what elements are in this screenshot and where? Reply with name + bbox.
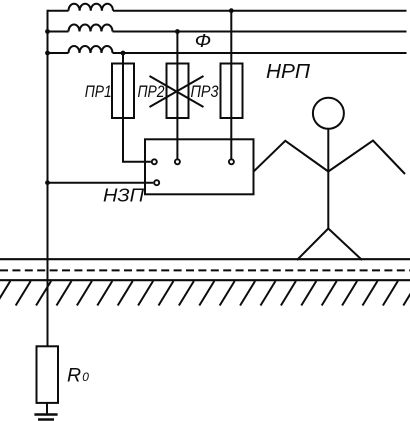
fuse PR3 bbox=[221, 64, 243, 119]
person right arm bbox=[328, 141, 405, 175]
earth electrode symbol bbox=[34, 415, 57, 420]
svg-text:ПР3: ПР3 bbox=[191, 82, 219, 101]
terminal 1 bbox=[152, 159, 157, 164]
person right leg bbox=[328, 229, 362, 261]
relay box NZP bbox=[145, 139, 254, 194]
wire phase line 1 (top) bbox=[48, 10, 407, 12]
terminal 4 bbox=[154, 180, 159, 185]
wire neutral bus vertical bbox=[47, 10, 49, 347]
wire resistor to earth bbox=[46, 403, 48, 415]
junction node PR1 tap bbox=[121, 51, 126, 56]
blown fuse X mark over PR2 bbox=[150, 76, 204, 107]
svg-text:R0: R0 bbox=[67, 365, 89, 387]
fuse PR1 bbox=[112, 64, 134, 119]
svg-text:ПР1: ПР1 bbox=[85, 82, 112, 101]
wire drop to fuse PR1 and bend to terminal 1 bbox=[123, 53, 151, 162]
junction node on bus at line 2 bbox=[45, 29, 50, 34]
resistor R0 bbox=[37, 346, 59, 403]
wire neutral branch to terminal 4 bbox=[48, 182, 154, 184]
winding L3 bbox=[69, 46, 113, 53]
wire drop to fuse PR3 bbox=[230, 11, 232, 159]
svg-text:ПР2: ПР2 bbox=[138, 82, 165, 101]
ground dashed line bbox=[0, 269, 410, 271]
person head bbox=[313, 98, 344, 129]
terminal 3 bbox=[229, 159, 234, 164]
person body bbox=[327, 129, 329, 229]
svg-text:НЗП: НЗП bbox=[103, 185, 145, 205]
fuse PR2 bbox=[167, 64, 189, 119]
wire phase line 2 (middle) bbox=[48, 31, 407, 33]
junction node on bus at line 3 bbox=[45, 51, 50, 56]
ground hatching bbox=[0, 281, 410, 306]
person left leg bbox=[297, 229, 328, 261]
wire phase line 3 (bottom) bbox=[48, 52, 407, 54]
junction node PR2 tap bbox=[175, 29, 180, 34]
wire drop to fuse PR2 bbox=[176, 32, 178, 159]
svg-text:НРП: НРП bbox=[266, 61, 311, 83]
svg-text:Ф: Ф bbox=[195, 31, 212, 51]
person left arm touching box bbox=[254, 141, 328, 172]
winding L1 bbox=[69, 4, 113, 11]
winding L2 bbox=[69, 25, 113, 32]
terminal 2 bbox=[175, 159, 180, 164]
junction node PR3 tap bbox=[229, 8, 234, 13]
junction node on bus at neutral branch bbox=[45, 180, 50, 185]
ground hatch top line bbox=[0, 279, 410, 281]
ground surface solid line bbox=[0, 258, 410, 260]
